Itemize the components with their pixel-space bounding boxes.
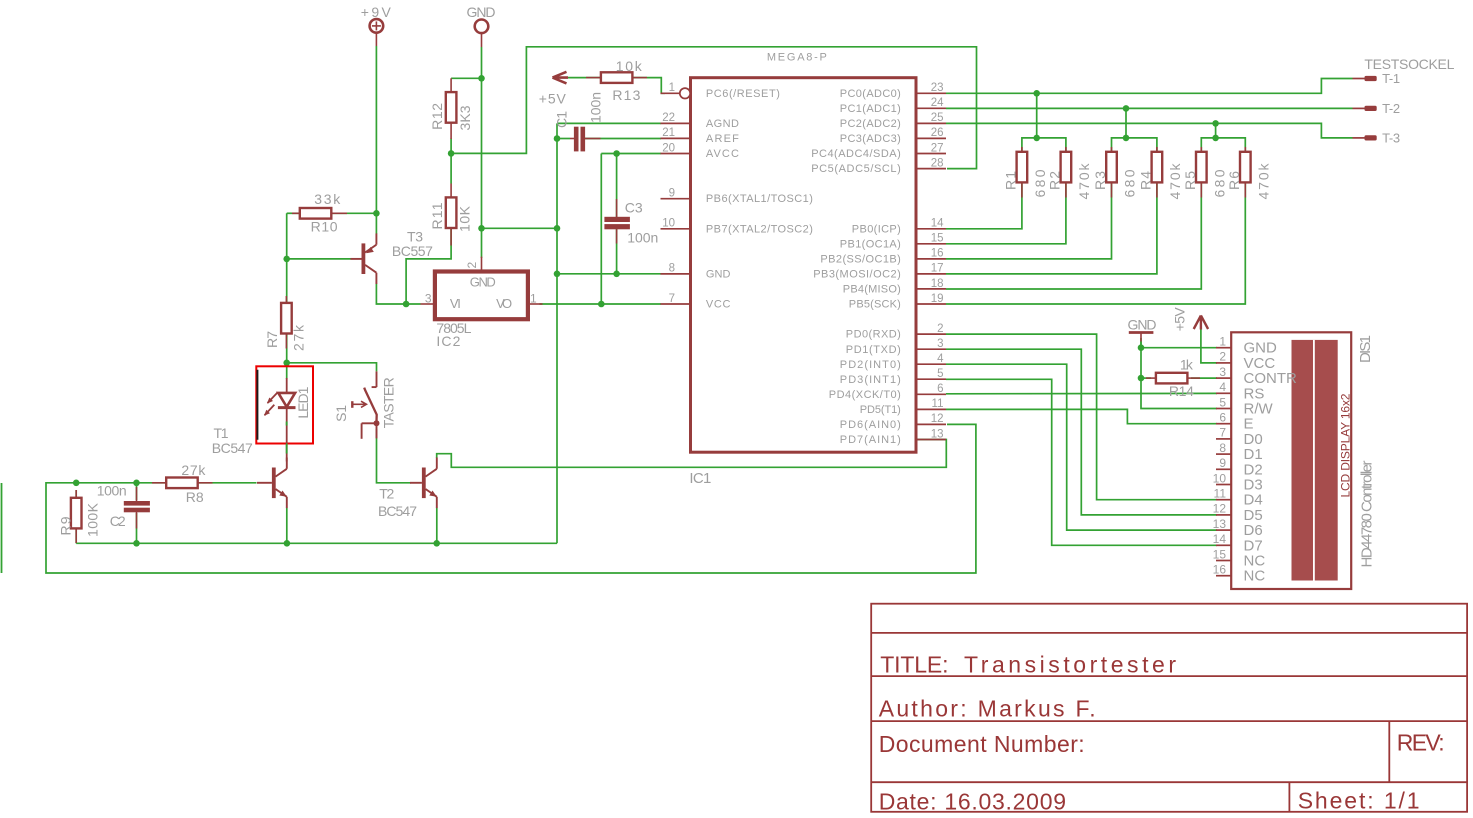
- svg-text:20: 20: [662, 142, 675, 154]
- wire drop to R5/R6: [1215, 123, 1217, 137]
- svg-text:25: 25: [931, 112, 944, 124]
- svg-text:PD0(RXD): PD0(RXD): [846, 329, 901, 341]
- svg-text:680: 680: [1122, 169, 1138, 197]
- wire PC0 to T-1: [946, 79, 1353, 94]
- svg-text:PD1(TXD): PD1(TXD): [846, 344, 901, 356]
- LCD pin 6 E: [1216, 423, 1231, 425]
- MEGA8 pin 8: [661, 273, 691, 275]
- wire T2 emitter down: [436, 508, 438, 544]
- svg-text:LED1: LED1: [295, 386, 311, 418]
- wire T3 base: [287, 258, 351, 260]
- MEGA8 pin 26: [916, 137, 946, 139]
- LCD pin 14 D7: [1216, 544, 1231, 546]
- MEGA8 pin 6: [916, 393, 946, 395]
- wire T2 collector to MEGA8 pin 13 PD7: [437, 440, 947, 468]
- svg-text:PC3(ADC3): PC3(ADC3): [840, 133, 901, 145]
- svg-text:3: 3: [1219, 365, 1226, 379]
- wire T1 emitter down: [286, 508, 288, 544]
- MEGA8 pin 22: [661, 122, 691, 124]
- junction: [133, 480, 140, 487]
- svg-text:IC1: IC1: [689, 470, 711, 487]
- S1 actuator: [351, 401, 353, 408]
- junction: [613, 271, 620, 278]
- svg-text:R9: R9: [57, 516, 73, 535]
- MEGA8 pin 1 PC6(/RESET): [661, 92, 680, 94]
- svg-text:11: 11: [1214, 487, 1227, 501]
- wire drop to R1/R2: [1036, 93, 1038, 138]
- svg-text:HD44780 Controller: HD44780 Controller: [1359, 461, 1376, 568]
- junction: [1138, 375, 1145, 382]
- svg-text:11: 11: [932, 398, 944, 410]
- wire bottom GND rail: [76, 542, 557, 544]
- wire R12 top to GND net: [451, 77, 481, 79]
- switch S1 TASTER: [376, 371, 378, 387]
- +5V supply symbol (left, near R13): [553, 72, 569, 84]
- MEGA8 pin 10: [661, 228, 691, 230]
- wire C2 bottom: [136, 513, 138, 543]
- MEGA8 pin 16: [916, 258, 946, 260]
- MEGA8 pin 9: [661, 198, 691, 200]
- svg-text:PD4(XCK/T0): PD4(XCK/T0): [829, 389, 901, 401]
- svg-text:16: 16: [931, 248, 944, 260]
- svg-text:5: 5: [1219, 395, 1226, 409]
- capacitor C3 100n: [604, 217, 630, 222]
- svg-text:PB5(SCK): PB5(SCK): [849, 299, 901, 311]
- wire C1 left: [557, 138, 570, 140]
- svg-text:470k: 470k: [1256, 163, 1272, 200]
- svg-text:26: 26: [931, 127, 944, 139]
- svg-text:PB4(MISO): PB4(MISO): [843, 284, 901, 296]
- MEGA8 pin 14: [916, 228, 946, 230]
- svg-text:BC547: BC547: [378, 503, 417, 519]
- svg-text:GND: GND: [706, 269, 731, 281]
- junction: [373, 210, 380, 217]
- wire R9 bottom: [75, 527, 77, 543]
- wire R6 bottom to PB5: [946, 182, 1245, 304]
- capacitor C2 100n: [124, 501, 150, 506]
- svg-text:1k: 1k: [1180, 357, 1194, 373]
- MEGA8 pin 13: [916, 439, 946, 441]
- junction: [283, 256, 290, 263]
- LED1 black edge mark: [256, 370, 258, 440]
- svg-text:9: 9: [1219, 456, 1226, 470]
- MEGA8 pin 28: [916, 168, 946, 170]
- transistor T3 BC557 (PNP): [362, 243, 366, 274]
- svg-text:T-2: T-2: [1382, 101, 1400, 116]
- svg-text:PD3(INT1): PD3(INT1): [840, 374, 901, 386]
- resistor R2 470k: [1061, 152, 1072, 183]
- wire GND link: [482, 227, 558, 229]
- wire C3 bottom: [616, 228, 618, 274]
- MEGA8 pin 18: [916, 288, 946, 290]
- resistor R4 470k: [1152, 152, 1163, 183]
- svg-text:15: 15: [931, 233, 944, 245]
- wire PD4 to LCD RS: [946, 392, 1217, 394]
- svg-text:DIS1: DIS1: [1357, 335, 1374, 363]
- wire R14 right to CONTR: [1191, 377, 1217, 379]
- svg-text:28: 28: [931, 157, 944, 169]
- svg-text:10: 10: [662, 218, 675, 230]
- svg-text:23: 23: [931, 82, 944, 94]
- wire PD0 to LCD D4: [946, 334, 1217, 500]
- LCD pin 4 RS: [1216, 392, 1231, 394]
- svg-text:Author: Markus F.: Author: Markus F.: [879, 695, 1096, 721]
- resistor R13 10k: [601, 72, 633, 83]
- wire R1 bottom to PB0: [946, 182, 1022, 229]
- svg-text:22: 22: [662, 112, 675, 124]
- svg-text:7: 7: [669, 293, 675, 305]
- wire LCD GND pin1: [1141, 347, 1217, 349]
- svg-text:C2: C2: [110, 513, 126, 529]
- svg-text:100K: 100K: [85, 502, 101, 537]
- resistor R5 680: [1196, 152, 1207, 183]
- resistor R10 33k: [300, 208, 332, 219]
- svg-text:3K3: 3K3: [457, 105, 473, 130]
- svg-text:R7: R7: [264, 331, 280, 348]
- svg-text:R13: R13: [612, 87, 640, 103]
- wire GND net vertical: [481, 47, 483, 257]
- svg-text:T-3: T-3: [1382, 131, 1400, 146]
- junction: [554, 135, 561, 142]
- svg-text:R11: R11: [429, 202, 445, 229]
- svg-text:PB6(XTAL1/TOSC1): PB6(XTAL1/TOSC1): [706, 193, 813, 205]
- wire C3 top: [616, 154, 618, 219]
- resistor R8 27k: [166, 478, 198, 489]
- wire R10 left: [287, 212, 300, 214]
- LCD pin 8 D1: [1216, 453, 1231, 455]
- svg-text:6: 6: [1219, 411, 1226, 425]
- svg-text:Date: 16.03.2009: Date: 16.03.2009: [879, 789, 1066, 815]
- svg-text:1: 1: [530, 292, 537, 306]
- MEGA8 pin 12: [916, 423, 946, 425]
- svg-text:Document Number:: Document Number:: [879, 731, 1085, 757]
- svg-text:R14: R14: [1169, 383, 1194, 399]
- svg-text:R10: R10: [311, 218, 338, 234]
- LCD pin 11 D4: [1216, 499, 1231, 501]
- svg-text:VO: VO: [496, 296, 512, 311]
- svg-text:REV:: REV:: [1397, 730, 1445, 756]
- wire canvas-edge stub: [1, 483, 3, 573]
- MEGA8 pin 23: [916, 92, 946, 94]
- wire GND to R/W: [1141, 338, 1217, 409]
- svg-text:PC2(ADC2): PC2(ADC2): [840, 118, 901, 130]
- svg-text:33k: 33k: [314, 191, 341, 207]
- transistor T1 BC547 (NPN): [272, 468, 276, 499]
- svg-text:TESTSOCKEL: TESTSOCKEL: [1364, 56, 1454, 72]
- wire C2 top: [136, 483, 138, 500]
- junction: [1033, 90, 1040, 97]
- MEGA8 pin 27: [916, 153, 946, 155]
- wire 7805 GND pin: [481, 257, 483, 258]
- wire T3 collector to 7805 VI: [376, 284, 420, 304]
- junction: [1123, 135, 1130, 142]
- svg-text:R4: R4: [1138, 171, 1154, 190]
- wire R5 bottom to PB4: [946, 182, 1201, 289]
- wire R9 top node: [76, 482, 136, 484]
- LCD pin 1 GND: [1216, 347, 1231, 349]
- svg-text:8: 8: [1219, 441, 1226, 455]
- svg-text:PB1(OC1A): PB1(OC1A): [840, 238, 901, 250]
- svg-text:R6: R6: [1226, 171, 1242, 190]
- wire S1 to T2 base: [377, 429, 412, 483]
- svg-text:C1: C1: [553, 111, 569, 128]
- junction: [73, 480, 80, 487]
- svg-text:AVCC: AVCC: [706, 148, 739, 160]
- MEGA8 pin 15: [916, 243, 946, 245]
- svg-text:BC557: BC557: [392, 243, 433, 259]
- svg-text:GND: GND: [467, 4, 496, 20]
- MEGA8 pin 5: [916, 378, 946, 380]
- svg-text:24: 24: [931, 97, 944, 109]
- wire R12 bottom to R11 top: [450, 139, 452, 184]
- wire drop to R3/R4: [1125, 108, 1127, 137]
- voltage regulator IC2 7805L: [435, 272, 528, 320]
- wire 7805 VO to VCC: [540, 303, 662, 305]
- svg-text:NC: NC: [1244, 568, 1266, 585]
- wire R14 left: [1141, 377, 1151, 379]
- MEGA8 pin 4: [916, 363, 946, 365]
- wire AGND corner: [556, 123, 558, 138]
- wire +5V to LCD VCC: [1201, 329, 1217, 363]
- junction: [133, 540, 140, 547]
- svg-text:BC547: BC547: [212, 440, 253, 456]
- svg-text:PC4(ADC4/SDA): PC4(ADC4/SDA): [811, 148, 901, 160]
- svg-text:PC6(/RESET): PC6(/RESET): [706, 88, 780, 100]
- svg-text:100n: 100n: [627, 229, 658, 245]
- svg-text:C3: C3: [625, 200, 643, 216]
- svg-text:4: 4: [1219, 380, 1226, 394]
- LCD pin 13 D6: [1216, 529, 1231, 531]
- MEGA8 pin 25: [916, 122, 946, 124]
- wire R11 bottom to 7805 VI: [406, 227, 451, 305]
- junction: [448, 150, 455, 157]
- svg-text:PD5(T1): PD5(T1): [860, 404, 901, 416]
- wire LED node to switch S1: [287, 363, 377, 372]
- MEGA8 pin 3: [916, 348, 946, 350]
- svg-text:PD2(INT0): PD2(INT0): [840, 359, 901, 371]
- svg-text:R5: R5: [1182, 171, 1198, 190]
- svg-text:12: 12: [1213, 502, 1227, 516]
- LCD pin 15 NC: [1216, 560, 1231, 562]
- svg-text:100n: 100n: [587, 92, 603, 123]
- wire R2 bottom to PB1: [946, 182, 1066, 244]
- svg-text:8: 8: [669, 263, 675, 275]
- resistor R12 3K3: [446, 92, 457, 123]
- wire GND vertical riser: [556, 139, 558, 544]
- LED1 red highlight box: [256, 366, 313, 443]
- transistor T2 BC547 (NPN): [422, 468, 426, 499]
- pin T-2: [1353, 107, 1366, 109]
- svg-text:S1: S1: [333, 405, 349, 422]
- svg-text:Transistortester: Transistortester: [964, 652, 1176, 678]
- svg-text:10K: 10K: [456, 205, 472, 232]
- +5V supply symbol (LCD): [1194, 316, 1208, 330]
- GND supply symbol (top): [475, 20, 489, 34]
- resistor R7 27k: [281, 303, 292, 334]
- LCD pin 10 D3: [1216, 484, 1231, 486]
- wire +9V net vertical: [375, 46, 377, 213]
- wire R11/R12 node to MEGA8 PC5 pin 28: [451, 47, 976, 169]
- svg-text:PB3(MOSI/OC2): PB3(MOSI/OC2): [813, 269, 901, 281]
- svg-text:VI: VI: [450, 296, 461, 311]
- LCD pin 5 R/W: [1216, 408, 1231, 410]
- junction: [478, 225, 485, 232]
- LCD pin 2 VCC: [1216, 362, 1231, 364]
- svg-text:+5V: +5V: [1172, 307, 1188, 332]
- wire R3 bottom to PB2: [946, 182, 1112, 259]
- wire PD1 to LCD D5: [946, 349, 1217, 515]
- pin T-1: [1353, 78, 1366, 80]
- resistor R9 100K: [71, 498, 82, 529]
- junction: [433, 540, 440, 547]
- MEGA8 pin 11: [916, 408, 946, 410]
- +9V supply symbol: [370, 19, 384, 33]
- svg-text:1: 1: [669, 82, 675, 94]
- svg-text:5: 5: [937, 368, 943, 380]
- svg-text:10k: 10k: [616, 58, 643, 74]
- svg-text:7: 7: [1219, 426, 1226, 440]
- junction: [1033, 135, 1040, 142]
- wire resistor pair top bar: [1112, 138, 1157, 153]
- svg-text:27: 27: [931, 142, 944, 154]
- svg-text:6: 6: [937, 383, 943, 395]
- LCD display bars: [1292, 340, 1338, 581]
- junction: [284, 540, 291, 547]
- resistor R6 470k: [1240, 152, 1251, 183]
- junction: [1138, 344, 1145, 351]
- wire resistor pair top bar: [1201, 138, 1245, 153]
- wire LED anode: [286, 363, 288, 379]
- svg-text:3: 3: [937, 338, 943, 350]
- wire R13 to reset pin 1: [631, 78, 665, 94]
- wire T3 emitter up: [375, 213, 377, 234]
- MEGA8 pin 19: [916, 303, 946, 305]
- junction: [554, 271, 561, 278]
- svg-text:12: 12: [931, 413, 944, 425]
- svg-text:15: 15: [1213, 547, 1227, 561]
- svg-text:100n: 100n: [97, 482, 127, 498]
- wire R8 left: [137, 482, 168, 484]
- svg-text:13: 13: [1213, 517, 1227, 531]
- svg-text:3: 3: [425, 292, 432, 306]
- wire R7 bottom to LED node: [286, 333, 288, 363]
- junction: [598, 301, 605, 308]
- svg-text:PC1(ADC1): PC1(ADC1): [840, 103, 901, 115]
- svg-text:AGND: AGND: [706, 118, 739, 130]
- svg-text:IC2: IC2: [436, 333, 460, 349]
- svg-text:17: 17: [931, 263, 944, 275]
- svg-text:16: 16: [1213, 563, 1227, 577]
- MEGA8 pin 17: [916, 273, 946, 275]
- LCD pin 7 D0: [1216, 438, 1231, 440]
- wire R9 top stub: [75, 490, 77, 499]
- wire PD2 to LCD D6: [946, 364, 1217, 530]
- svg-text:PB0(ICP): PB0(ICP): [852, 223, 901, 235]
- LCD pin 16 NC: [1216, 575, 1231, 577]
- svg-text:T2: T2: [379, 486, 394, 502]
- wire PD5 to LCD E: [946, 409, 1217, 423]
- svg-text:+9V: +9V: [361, 4, 392, 20]
- capacitor C1 100n: [574, 127, 579, 152]
- svg-text:470k: 470k: [1076, 163, 1092, 200]
- junction: [283, 360, 290, 367]
- svg-text:PD7(AIN1): PD7(AIN1): [840, 434, 901, 446]
- svg-text:2: 2: [937, 323, 943, 335]
- svg-text:470k: 470k: [1167, 163, 1183, 200]
- MEGA8 pin 21: [661, 137, 691, 139]
- svg-text:9: 9: [669, 188, 675, 200]
- svg-text:LCD DISPLAY 16x2: LCD DISPLAY 16x2: [1338, 393, 1352, 497]
- LCD pin 9 D2: [1216, 468, 1231, 470]
- wire PC2 to T-3: [946, 123, 1353, 137]
- svg-text:14: 14: [931, 218, 944, 230]
- svg-text:27k: 27k: [181, 462, 206, 478]
- LCD pin 3 CONTR: [1216, 377, 1231, 379]
- wire LED to T1 collector: [286, 444, 288, 454]
- wire PD3 to LCD D7: [946, 379, 1217, 545]
- svg-text:MEGA8-P: MEGA8-P: [767, 51, 827, 63]
- MEGA8 pin 7: [661, 303, 691, 305]
- svg-text:10: 10: [1213, 471, 1227, 485]
- svg-text:Sheet: 1/1: Sheet: 1/1: [1298, 788, 1420, 814]
- svg-text:GND: GND: [470, 275, 496, 290]
- junction: [1212, 135, 1219, 142]
- svg-text:T1: T1: [214, 425, 229, 441]
- svg-text:13: 13: [931, 428, 944, 440]
- svg-text:R8: R8: [186, 489, 204, 505]
- MEGA8 pin 20: [661, 153, 691, 155]
- wire resistor pair top bar: [1022, 138, 1066, 153]
- wire AIN0 outer loop to pin 12: [46, 424, 976, 573]
- wire +5V to R13: [568, 77, 602, 79]
- svg-text:GND: GND: [1128, 316, 1157, 332]
- wire GND row to pin 8: [557, 273, 661, 275]
- LCD display DIS1 body: [1231, 332, 1351, 589]
- junction: [1123, 105, 1130, 112]
- svg-text:PB7(XTAL2/TOSC2): PB7(XTAL2/TOSC2): [706, 223, 813, 235]
- wire R10 right to +9V node: [332, 212, 376, 214]
- svg-text:14: 14: [1213, 532, 1227, 546]
- IC U1 MEGA8-P body: [691, 78, 917, 453]
- LCD pin 12 D5: [1216, 514, 1231, 516]
- junction: [1212, 120, 1219, 127]
- wire AVCC to VCC vertical: [600, 154, 602, 305]
- wire R10 left down to R7: [286, 213, 288, 304]
- resistor R14 1k: [1156, 373, 1188, 384]
- svg-text:R3: R3: [1092, 171, 1108, 190]
- wire AVCC row: [601, 153, 661, 155]
- resistor R11 10K: [446, 197, 457, 228]
- svg-text:+5V: +5V: [539, 90, 567, 106]
- wire R4 bottom to PB3: [946, 182, 1157, 274]
- svg-text:18: 18: [931, 278, 944, 290]
- svg-text:PC0(ADC0): PC0(ADC0): [840, 88, 901, 100]
- svg-text:PC5(ADC5/SCL): PC5(ADC5/SCL): [811, 163, 901, 175]
- GND symbol (LCD): [1129, 331, 1154, 334]
- svg-text:4: 4: [937, 353, 944, 365]
- svg-text:R1: R1: [1003, 171, 1019, 190]
- svg-text:1: 1: [1219, 335, 1226, 349]
- svg-text:TASTER: TASTER: [380, 377, 396, 428]
- resistor R3 680: [1106, 152, 1117, 183]
- wire R8 right to T1 base: [197, 482, 257, 484]
- junction: [613, 150, 620, 157]
- svg-text:21: 21: [662, 127, 675, 139]
- wire LED cathode gap: [286, 422, 288, 426]
- wire AGND row: [557, 122, 661, 124]
- junction: [403, 301, 410, 308]
- junction: [554, 225, 561, 232]
